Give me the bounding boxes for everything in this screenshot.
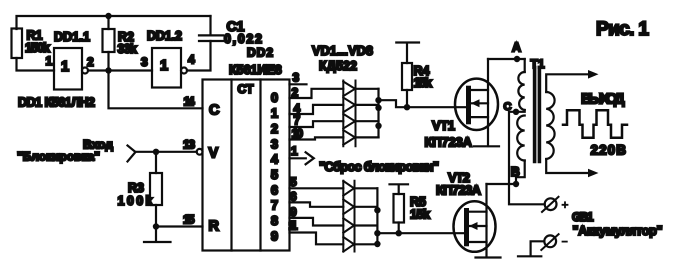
wire cathode connectors top bbox=[356, 89, 379, 138]
core bbox=[535, 68, 540, 162]
svg-text:1: 1 bbox=[271, 106, 278, 121]
wire bus to VT2 gate bbox=[377, 232, 464, 234]
input arrow Вход Блокировка bbox=[17, 138, 197, 164]
svg-text:7: 7 bbox=[294, 114, 301, 128]
svg-text:4: 4 bbox=[188, 53, 195, 67]
diode VD1 bbox=[343, 82, 355, 97]
svg-text:3: 3 bbox=[293, 71, 300, 85]
svg-text:DD1.1: DD1.1 bbox=[54, 30, 90, 44]
svg-text:2: 2 bbox=[271, 121, 278, 136]
output arrow top bbox=[588, 70, 599, 79]
svg-text:1: 1 bbox=[46, 54, 53, 68]
svg-text:DD2: DD2 bbox=[247, 46, 273, 60]
wire bus to VT1 gate bbox=[379, 100, 467, 107]
svg-text:0,022: 0,022 bbox=[224, 32, 262, 46]
svg-text:C: C bbox=[209, 103, 220, 119]
wire cathode bus top bbox=[377, 89, 379, 138]
junction top bus 3 bbox=[375, 123, 381, 129]
primary winding upper bbox=[518, 72, 524, 110]
primary winding lower bbox=[517, 116, 524, 161]
node R4 junction bbox=[404, 104, 410, 110]
terminal minus bbox=[518, 234, 567, 256]
pin 6 wire bbox=[290, 202, 344, 206]
svg-text:220В: 220В bbox=[591, 143, 627, 158]
wire to pin 15 bbox=[156, 225, 203, 227]
diode VD6 bbox=[343, 200, 354, 215]
svg-text:КД522: КД522 bbox=[319, 59, 357, 73]
wire C tap to battery plus bbox=[509, 112, 545, 205]
resistor R2 bbox=[103, 16, 138, 71]
wire secondary bottom lead bbox=[546, 159, 589, 173]
center tap C bbox=[516, 110, 525, 112]
wire B to VT2 drain bbox=[487, 183, 517, 185]
junction bottom bus 2 bbox=[374, 230, 380, 236]
transistor VT1 bbox=[425, 59, 500, 150]
node R5 junction bbox=[396, 230, 402, 236]
svg-text:8: 8 bbox=[271, 213, 278, 228]
resistor R5 bbox=[390, 184, 431, 233]
primary top lead bbox=[524, 59, 526, 72]
svg-text:3: 3 bbox=[271, 136, 278, 151]
wire diode anode/cathode rails bottom bbox=[343, 181, 354, 252]
svg-text:100k: 100k bbox=[118, 194, 153, 208]
junction top bus 2 bbox=[375, 105, 381, 111]
inverter DD1.2 bbox=[141, 29, 195, 88]
diode VD2 bbox=[343, 98, 355, 113]
node R2 bottom junction bbox=[105, 67, 111, 73]
wire top rail bbox=[17, 16, 211, 29]
svg-text:КП723А: КП723А bbox=[436, 183, 482, 198]
svg-text:2: 2 bbox=[87, 55, 94, 69]
terminal plus bbox=[542, 197, 568, 212]
capacitor C1 bbox=[199, 16, 262, 46]
wire secondary top lead bbox=[546, 74, 589, 92]
svg-text:A: A bbox=[512, 41, 521, 55]
node B bbox=[513, 181, 519, 187]
pin 7 wire bbox=[290, 121, 344, 127]
wire DD1.2 out up to C1 bbox=[187, 41, 211, 71]
svg-text:R: R bbox=[209, 219, 220, 235]
svg-text:11: 11 bbox=[289, 219, 298, 233]
transistor VT2 bbox=[436, 170, 501, 258]
svg-text:"Сброс блокировки": "Сброс блокировки" bbox=[319, 159, 439, 174]
svg-text:150k: 150k bbox=[25, 41, 50, 55]
node rail-R2 junction bbox=[105, 13, 111, 19]
pin 10 wire bbox=[290, 137, 344, 139]
resistor R4 bbox=[396, 43, 432, 108]
svg-text:Рис. 1: Рис. 1 bbox=[596, 19, 649, 40]
svg-text:0: 0 bbox=[271, 90, 278, 105]
svg-text:1: 1 bbox=[160, 58, 168, 74]
svg-text:B: B bbox=[511, 165, 520, 179]
diode VD7 bbox=[343, 218, 354, 233]
svg-text:DD1 К561ЛН2: DD1 К561ЛН2 bbox=[18, 96, 95, 110]
svg-text:VD1...VD8: VD1...VD8 bbox=[312, 44, 373, 58]
svg-text:3: 3 bbox=[141, 55, 148, 69]
junction bottom bus 1 bbox=[374, 207, 380, 213]
svg-text:VT1: VT1 bbox=[432, 118, 455, 133]
wire DD1.1 out to DD1.2 in bbox=[88, 69, 152, 71]
junction top bus 1 bbox=[375, 97, 381, 103]
svg-text:7: 7 bbox=[271, 198, 278, 213]
svg-text:"Блокировка": "Блокировка" bbox=[17, 150, 100, 164]
resistor R1 bbox=[12, 29, 55, 71]
waveform symbol bbox=[563, 110, 627, 137]
svg-text:КП723А: КП723А bbox=[425, 135, 473, 150]
wire cathode bus bottom bbox=[376, 188, 378, 244]
resistor R3 bbox=[118, 152, 163, 227]
pin 9 wire bbox=[290, 218, 344, 226]
wire cathode connectors bottom bbox=[355, 188, 378, 244]
svg-text:15k: 15k bbox=[410, 208, 430, 222]
svg-text:R3: R3 bbox=[128, 181, 144, 195]
svg-text:13: 13 bbox=[183, 138, 195, 152]
secondary winding bbox=[546, 92, 554, 159]
digits 0-9 bbox=[271, 90, 279, 243]
svg-text:DD1.2: DD1.2 bbox=[147, 29, 182, 43]
pin 11 wire bbox=[290, 233, 344, 245]
svg-text:6: 6 bbox=[290, 190, 297, 204]
svg-text:6: 6 bbox=[271, 182, 278, 197]
junction bottom bus 3 bbox=[374, 241, 380, 247]
svg-text:CT: CT bbox=[238, 82, 255, 96]
diode VD8 bbox=[343, 237, 354, 252]
pin 4 wire bbox=[290, 105, 344, 114]
svg-text:9: 9 bbox=[271, 229, 278, 244]
svg-text:1: 1 bbox=[61, 59, 69, 75]
wire junction down to pin14 bbox=[109, 71, 203, 109]
svg-text:ВЫХОД: ВЫХОД bbox=[581, 91, 625, 108]
diode VD4 bbox=[343, 130, 355, 145]
svg-text:15k: 15k bbox=[414, 76, 433, 90]
svg-text:5: 5 bbox=[271, 167, 278, 182]
pin 2 wire bbox=[290, 89, 344, 98]
transformer T1 bbox=[504, 57, 590, 187]
svg-text:10: 10 bbox=[292, 127, 304, 141]
svg-text:GB1: GB1 bbox=[572, 210, 594, 224]
ground below R3 bbox=[144, 227, 171, 243]
wire diode anode/cathode rails top bbox=[343, 81, 355, 147]
diode VD3 bbox=[343, 114, 355, 129]
svg-text:2: 2 bbox=[292, 86, 299, 100]
pin 5 wire bbox=[290, 187, 344, 189]
svg-text:14: 14 bbox=[184, 95, 195, 109]
svg-text:V: V bbox=[209, 146, 219, 162]
svg-text:9: 9 bbox=[290, 205, 297, 219]
pin 3 stub bbox=[290, 83, 307, 85]
svg-text:15: 15 bbox=[183, 213, 195, 227]
pin 1 Сброс arrow bbox=[290, 144, 440, 174]
svg-text:1: 1 bbox=[291, 144, 298, 158]
node R3 bottom junction bbox=[153, 223, 159, 229]
diode VD5 bbox=[343, 181, 354, 196]
svg-text:"Аккумулятор": "Аккумулятор" bbox=[573, 224, 663, 238]
svg-text:33k: 33k bbox=[118, 42, 138, 56]
counter DD2 K561IE8 box bbox=[184, 46, 290, 251]
svg-text:К561ИЕ8: К561ИЕ8 bbox=[229, 63, 282, 77]
output arrow bottom bbox=[588, 169, 599, 178]
primary bottom lead to B bbox=[516, 161, 525, 185]
node A bbox=[488, 58, 525, 60]
svg-text:5: 5 bbox=[290, 175, 297, 189]
inverter DD1.1 bbox=[46, 30, 95, 90]
svg-text:4: 4 bbox=[271, 152, 279, 167]
node R3 top junction bbox=[153, 149, 159, 155]
pin 13 inversion bubble bbox=[197, 149, 203, 155]
